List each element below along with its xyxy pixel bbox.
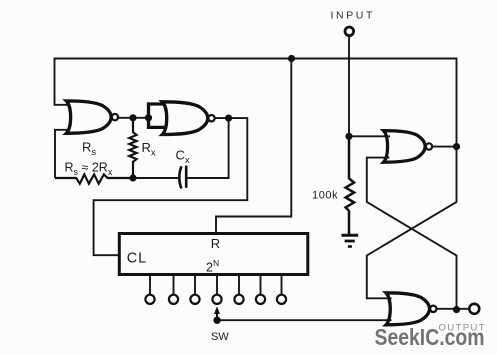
wire: bottom run to capacitor left plate [133,177,180,179]
pin 6 [260,276,262,295]
SW selector arrow [216,311,218,320]
wire: node B to gate 3 top input [349,135,390,137]
wire: gate1 output to gate2 input [117,117,148,119]
pin 4 [216,276,218,295]
svg-text:R: R [211,236,220,251]
pin 1 [149,276,151,295]
pin 7 [281,276,283,295]
svg-text:SeekIC.com: SeekIC.com [375,324,485,350]
capacitor C_x flat plate [185,166,188,188]
counter U5 box [119,234,307,275]
wire: SW to gate 4 bottom input [217,319,392,321]
bubble of gate 1 [112,114,118,120]
svg-text:CL: CL [127,250,147,266]
wire: top feedback rail from gate U1 input up, across top, down to U3 output node [55,59,457,147]
node SW dot [213,317,220,324]
bubble of gate 3 [426,143,432,149]
wire: gate3 output down, cross to left, down into gate 4 top input [367,147,457,299]
resistor R_s (horizontal zigzag) [55,174,133,183]
node B junction dot [345,133,352,140]
node: gate 3 output dot [453,143,460,150]
node: gate 2 input dot [145,114,152,121]
wire: gate3 bottom input left, down, cross to right, down to gate4 output node [367,158,457,310]
wire: gate1 bottom input down-left to Rs [55,130,70,178]
OUTPUT terminal [469,304,479,314]
resistor 100k (vertical zigzag) [346,136,355,234]
resistor R_x (vertical zigzag) [129,118,136,178]
node: gate 4 output dot [453,306,460,313]
op-amp U3 (NOR gate 3) [384,131,426,163]
node: R_s / R_x / C_x junction dot [129,174,136,181]
pin 3 [194,276,196,295]
op-amp U4 (NOR gate 4) [386,293,430,325]
wire: INPUT lead down to node B [348,36,350,137]
pin 5 [238,276,240,295]
node: gate 2 output junction dot [225,115,232,122]
wire: gate 3 output to right rail [432,146,457,148]
pin 2 [173,276,175,295]
svg-text:100k: 100k [312,190,338,202]
svg-text:SW: SW [211,331,229,343]
ground [342,234,359,237]
node A junction dot on top rail [288,55,295,62]
bubble of gate 2 [208,115,214,121]
wire: gate2 output right, down, left and down to counter CL [94,118,248,255]
node: gate1 output junction dot [129,114,136,121]
capacitor C_x curved plate [179,166,181,188]
INPUT terminal [345,27,354,36]
wire: from node A down, jog left, into counter R input [216,59,291,234]
op-amp U1 (NOR gate 1) [66,101,111,133]
wire: capacitor right plate to feedback vertical [186,118,228,178]
gate 2 tied input bar [149,104,165,127]
op-amp U2 (NOR gate 2) [162,102,208,135]
bubble of gate 4 [430,306,436,312]
svg-text:INPUT: INPUT [331,10,376,22]
wire: gate 4 output to OUTPUT terminal [437,308,469,310]
